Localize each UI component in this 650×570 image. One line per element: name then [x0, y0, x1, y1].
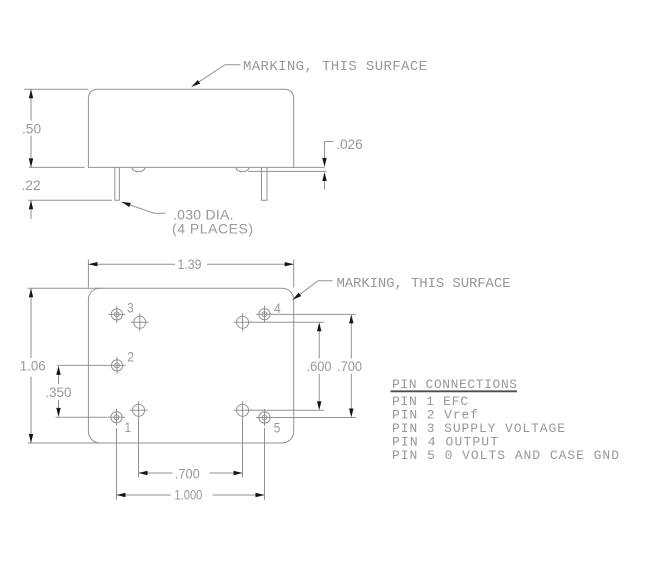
- arrowhead .600 bottom: [317, 401, 321, 410]
- pin 1 circles: [108, 409, 125, 426]
- arrowhead leader marking top: [190, 80, 200, 89]
- arrowhead 1.000 right: [256, 493, 265, 497]
- svg-text:.600: .600: [307, 358, 332, 374]
- arrowhead 1.39 left: [88, 262, 97, 266]
- package outline (bottom view): [88, 288, 293, 443]
- arrowhead .350 top: [56, 366, 60, 375]
- text .600: [307, 358, 332, 374]
- leader .030 dia: [122, 202, 166, 213]
- text 1.06: [20, 358, 46, 373]
- standoff hole BL: [130, 401, 148, 419]
- arrowhead leader marking bottom: [291, 293, 301, 302]
- svg-text:MARKING, THIS SURFACE: MARKING, THIS SURFACE: [243, 59, 427, 75]
- extension line pin2: [57, 364, 109, 366]
- svg-text:.50: .50: [22, 121, 41, 137]
- extension vertical pin1: [116, 428, 118, 500]
- dimension .350 line: [58, 374, 60, 384]
- label pin 4: [274, 300, 281, 316]
- svg-text:1: 1: [125, 419, 132, 435]
- arrowhead .350 bottom: [56, 408, 60, 417]
- standoff hole TL: [131, 313, 149, 331]
- label pin 3: [127, 299, 134, 315]
- text .22: [22, 177, 41, 193]
- dimension .600 line: [318, 331, 320, 359]
- svg-text:PIN CONNECTIONS: PIN CONNECTIONS: [392, 377, 517, 392]
- label pin 2: [127, 349, 134, 365]
- extension line pin bottom: [28, 199, 112, 201]
- arrowhead 1.06 top: [29, 288, 33, 297]
- standoff bump right (side view): [236, 167, 249, 171]
- text 1.000: [174, 487, 202, 502]
- svg-text:.700: .700: [337, 358, 362, 374]
- pin left (side view): [115, 167, 120, 200]
- text .350: [45, 385, 72, 400]
- leader marking top: [192, 65, 241, 87]
- pin right (side view): [262, 167, 268, 200]
- dimension .026 lines: [324, 142, 326, 160]
- svg-text:4: 4: [274, 300, 281, 316]
- svg-text:.350: .350: [45, 385, 72, 400]
- extension vertical standoff BR: [242, 417, 244, 478]
- arrowhead .700 right bottom: [349, 409, 353, 418]
- svg-text:1.39: 1.39: [178, 256, 202, 272]
- underline pin connections: [391, 390, 518, 392]
- dimension .50 line: [30, 89, 32, 120]
- text 1.39: [178, 256, 202, 272]
- dimension 1.39 line: [88, 263, 175, 265]
- svg-text:1.000: 1.000: [174, 487, 202, 502]
- arrowhead .700 right top: [349, 314, 353, 323]
- pin 2 circles: [108, 357, 125, 374]
- svg-text:MARKING, THIS SURFACE: MARKING, THIS SURFACE: [337, 276, 511, 292]
- arrowhead .22 bottom: [29, 200, 33, 209]
- pin 3 circles: [108, 306, 125, 323]
- seating plane extension line: [248, 170, 327, 172]
- arrowhead .026 lower: [322, 172, 326, 181]
- dimension 1.000 line: [117, 494, 171, 496]
- arrowhead .50 top: [29, 89, 33, 98]
- leader marking bottom: [293, 281, 333, 300]
- label pin 5: [274, 420, 281, 436]
- dimension .700 bottom line: [139, 472, 173, 474]
- dimension .700 right line: [350, 323, 352, 359]
- extension lines above corners (1.39): [87, 260, 89, 288]
- dimension .22 tail: [30, 200, 32, 219]
- extension lines 1.06: [28, 287, 101, 289]
- arrowhead .026 upper: [322, 158, 326, 167]
- extension line standoff TR: [249, 321, 324, 323]
- package body (side view): [88, 89, 293, 167]
- svg-text:1.06: 1.06: [20, 358, 46, 373]
- pin 4 circles: [256, 306, 273, 323]
- svg-text:3: 3: [127, 299, 134, 315]
- svg-text:.22: .22: [22, 177, 41, 193]
- svg-text:.700: .700: [175, 466, 200, 482]
- standoff bump left (side view): [132, 167, 145, 171]
- extension line pin1 left: [56, 416, 107, 418]
- arrowhead .600 top: [317, 322, 321, 331]
- extension line bottom-left of body: [29, 166, 85, 168]
- arrowhead .50 bottom: [29, 158, 33, 167]
- arrowhead leader .030: [121, 200, 131, 207]
- svg-text:.026: .026: [336, 137, 363, 152]
- standoff hole TR: [234, 313, 252, 331]
- text .026: [336, 137, 363, 152]
- label pin 1: [125, 419, 132, 435]
- extension line standoff BR: [249, 409, 324, 411]
- arrowhead .700 bottom right: [234, 471, 243, 475]
- arrowhead 1.06 bottom: [29, 434, 33, 443]
- extension line pin5 right: [271, 417, 356, 419]
- svg-text:2: 2: [127, 349, 134, 365]
- text .50: [22, 121, 41, 137]
- dimension 1.06 line: [30, 288, 32, 358]
- text .700 bottom: [175, 466, 200, 482]
- pin 5 circles: [256, 409, 273, 426]
- standoff hole BR: [234, 401, 252, 419]
- extension line bottom-right of body: [294, 166, 325, 168]
- text .700 right: [337, 358, 362, 374]
- extension vertical pin5: [264, 428, 266, 500]
- arrowhead 1.39 right: [285, 262, 294, 266]
- arrowhead .700 bottom left: [139, 471, 148, 475]
- svg-text:PIN 5 0 VOLTS AND CASE GND: PIN 5 0 VOLTS AND CASE GND: [392, 448, 619, 463]
- extension line top-left: [24, 88, 88, 90]
- svg-text:5: 5: [274, 420, 281, 436]
- arrowhead 1.000 left: [117, 493, 126, 497]
- svg-text:(4 PLACES): (4 PLACES): [172, 221, 253, 237]
- extension line pin4 right: [270, 313, 356, 315]
- extension vertical standoff BL: [138, 417, 140, 478]
